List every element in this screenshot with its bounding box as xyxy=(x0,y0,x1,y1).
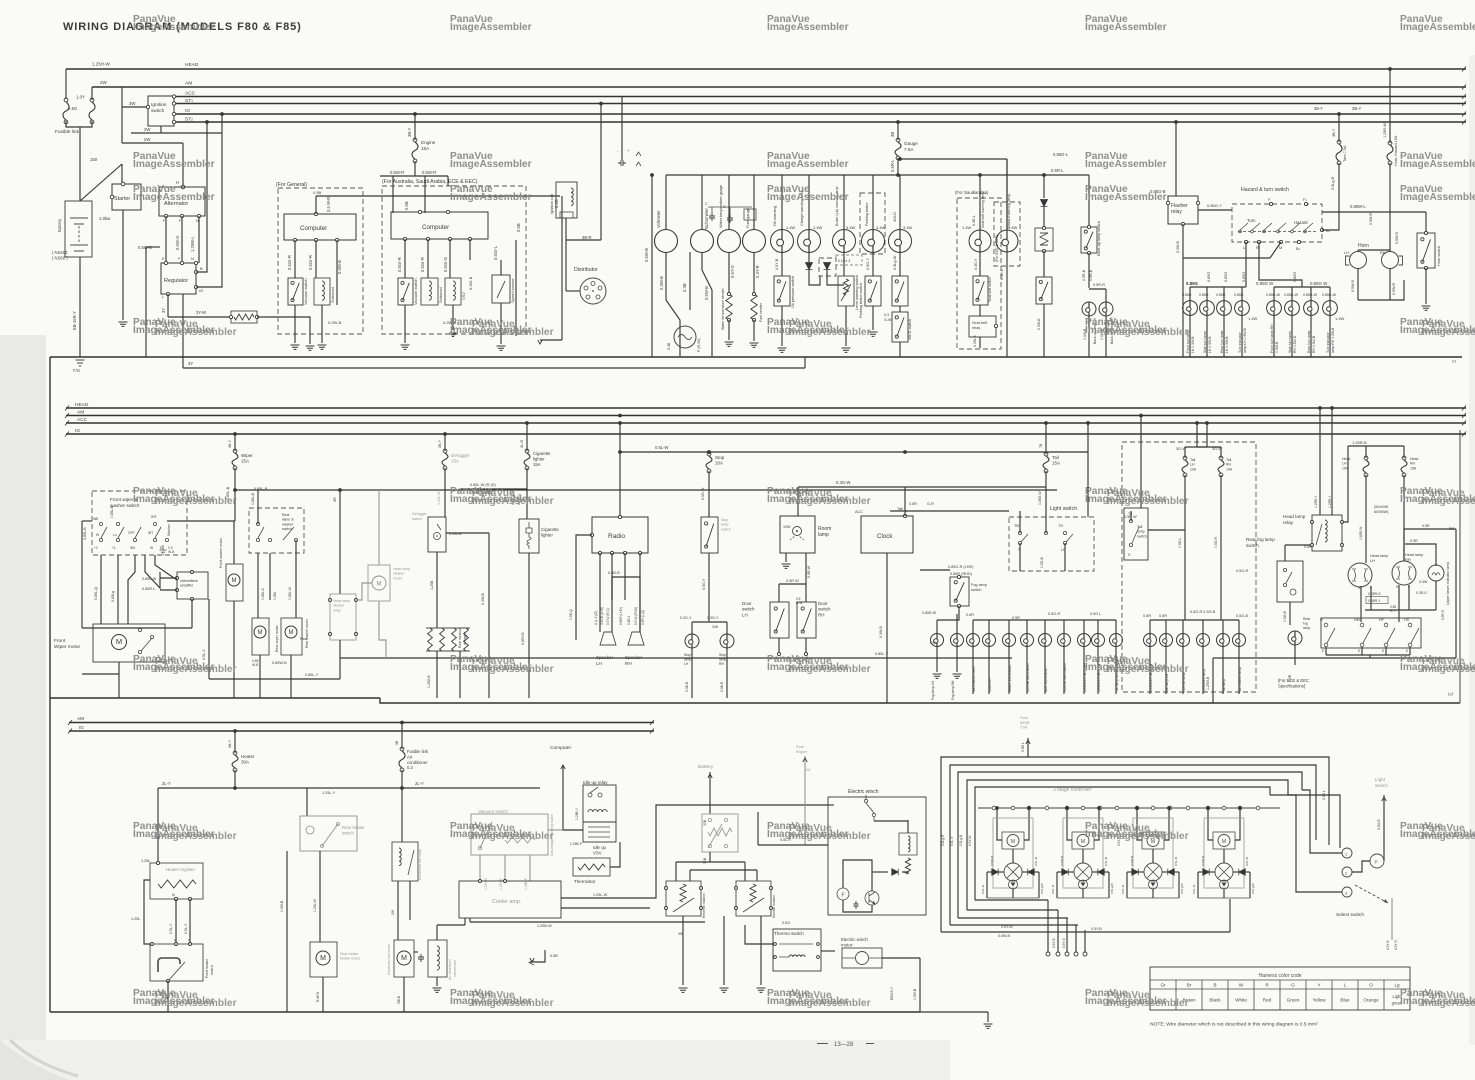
lamp: Heater illumination xyxy=(1003,634,1016,647)
terminal xyxy=(1166,201,1169,204)
wire to horn fuse xyxy=(1389,69,1391,143)
wire antenna xyxy=(576,535,592,640)
wire HEAD to fusible link xyxy=(65,69,67,99)
svg-text:Turn indicator: Turn indicator xyxy=(1238,332,1242,353)
svg-text:LH: LH xyxy=(1344,251,1349,255)
svg-text:3Y: 3Y xyxy=(161,308,166,313)
svg-text:0.5Gr-R: 0.5Gr-R xyxy=(308,255,313,270)
switch: stop lamp xyxy=(701,517,718,553)
unit frame xyxy=(1204,818,1244,888)
wire xyxy=(1229,899,1231,932)
svg-text:Horn switch: Horn switch xyxy=(1437,246,1441,266)
wire xyxy=(1067,832,1072,840)
wire xyxy=(778,638,780,652)
wire xyxy=(160,589,177,591)
svg-text:0.3G-Y: 0.3G-Y xyxy=(974,258,978,270)
svg-text:0.5Y-G: 0.5Y-G xyxy=(730,265,735,278)
fuse: Stop 10A xyxy=(706,452,712,473)
svg-text:Tail: Tail xyxy=(1137,525,1142,529)
wire xyxy=(624,553,626,600)
svg-text:0.5R-L: 0.5R-L xyxy=(1051,168,1064,173)
svg-text:Upper beam indicator lamp: Upper beam indicator lamp xyxy=(1446,562,1450,605)
svg-text:compressor: compressor xyxy=(453,959,457,977)
wire xyxy=(808,252,810,262)
junction xyxy=(978,173,982,177)
lamp: Consult illumination xyxy=(1021,634,1034,647)
resistor element xyxy=(234,314,254,320)
svg-text:2L-Y: 2L-Y xyxy=(415,781,424,786)
wire xyxy=(1289,602,1291,625)
terminal xyxy=(146,105,149,108)
lamp: Front turn lamp RH 0.3W-B xyxy=(1267,301,1282,316)
watermark xyxy=(767,184,849,203)
terminal xyxy=(1074,952,1078,956)
svg-text:0.5Y-B: 0.5Y-B xyxy=(775,258,779,270)
svg-text:0.85G-L: 0.85G-L xyxy=(1053,152,1069,157)
wire xyxy=(1328,800,1330,845)
wire xyxy=(1189,287,1191,301)
diode circle xyxy=(1009,880,1018,889)
label Light switch xyxy=(1375,777,1388,788)
lamp: brake warning xyxy=(833,230,856,253)
normal rotation coil xyxy=(750,884,756,902)
svg-text:0.3: 0.3 xyxy=(884,313,889,317)
junction xyxy=(1205,421,1209,425)
wire xyxy=(1105,289,1107,302)
svg-text:0.85R-G: 0.85R-G xyxy=(1368,592,1381,596)
wire IG to heater fuse xyxy=(234,731,236,753)
terminal xyxy=(727,318,730,321)
svg-text:C: C xyxy=(705,202,708,206)
wire xyxy=(1165,647,1167,695)
wire xyxy=(1044,620,1046,633)
wire xyxy=(1068,871,1074,873)
label Head lamp LH xyxy=(1370,554,1388,563)
wire xyxy=(459,651,461,698)
svg-text:1.4W: 1.4W xyxy=(1248,316,1258,321)
switch: parking brake xyxy=(865,276,881,306)
label Defogger switch xyxy=(412,512,428,521)
wire xyxy=(1208,832,1213,840)
wire xyxy=(1165,620,1167,633)
label Cigarette lighter 15A xyxy=(533,451,551,467)
wire xyxy=(1066,808,1068,832)
svg-text:lamp: lamp xyxy=(721,523,729,527)
svg-text:0.5Y-W: 0.5Y-W xyxy=(968,836,972,846)
ignition coil winding xyxy=(571,188,573,206)
ground Fog lamp LH xyxy=(933,674,942,678)
wire xyxy=(145,555,160,588)
svg-text:HS: HS xyxy=(1404,618,1410,622)
wire xyxy=(1302,790,1342,853)
svg-text:3B-Y: 3B-Y xyxy=(1352,106,1362,111)
watermark xyxy=(450,654,554,675)
terminal xyxy=(355,633,358,636)
ground xyxy=(401,345,410,349)
svg-text:Fusible link: Fusible link xyxy=(407,749,429,754)
watermark xyxy=(767,486,871,507)
wire xyxy=(1209,871,1215,873)
svg-text:Front turn lamp RH: Front turn lamp RH xyxy=(1270,324,1274,353)
svg-text:switch: switch xyxy=(210,965,214,975)
junction xyxy=(1318,406,1322,410)
svg-text:Electric winch: Electric winch xyxy=(841,937,868,942)
left page border xyxy=(49,357,51,1012)
svg-text:0.5R: 0.5R xyxy=(1143,614,1151,618)
ground F/G xyxy=(73,360,85,373)
idle up relay xyxy=(583,785,616,822)
wire xyxy=(1241,315,1243,357)
svg-text:fog: fog xyxy=(1303,622,1308,626)
watermark xyxy=(450,486,554,507)
svg-text:Battery: Battery xyxy=(698,764,714,770)
terminal xyxy=(957,604,960,607)
wire xyxy=(785,553,787,562)
svg-text:Head lamp: Head lamp xyxy=(1370,554,1388,558)
terminal xyxy=(180,214,183,217)
svg-text:1.25G-B: 1.25G-B xyxy=(427,675,431,688)
svg-text:0.85R (LHD): 0.85R (LHD) xyxy=(619,607,623,625)
solenoid 2 xyxy=(421,278,438,305)
wire xyxy=(1361,647,1363,655)
bus end tick xyxy=(1462,67,1466,72)
svg-text:0.3: 0.3 xyxy=(407,765,413,770)
svg-text:60/55W): 60/55W) xyxy=(1374,510,1389,514)
svg-text:switch: switch xyxy=(1137,534,1147,538)
svg-text:3.4W: 3.4W xyxy=(876,225,886,230)
svg-text:ImageAssembler: ImageAssembler xyxy=(1400,22,1475,33)
svg-text:15A: 15A xyxy=(451,459,459,464)
wire xyxy=(1197,446,1207,448)
svg-text:0.85G: 0.85G xyxy=(1186,281,1199,286)
lamp: charge warning xyxy=(798,230,821,253)
terminal xyxy=(957,575,960,578)
wire xyxy=(397,881,399,940)
svg-text:0.5L-W: 0.5L-W xyxy=(655,445,669,450)
svg-text:lamp: lamp xyxy=(684,658,691,662)
svg-text:ImageAssembler: ImageAssembler xyxy=(450,192,532,203)
svg-text:TB: TB xyxy=(1014,524,1019,528)
wire xyxy=(1233,871,1239,873)
svg-text:LH: LH xyxy=(684,662,689,666)
battery relay xyxy=(702,814,738,852)
svg-text:Condenser fan motor: Condenser fan motor xyxy=(387,943,391,975)
junction xyxy=(338,488,342,492)
watermark xyxy=(450,988,554,1009)
winch relay switch xyxy=(864,795,875,821)
watermark xyxy=(133,184,215,203)
capacitor C xyxy=(709,213,715,221)
ground xyxy=(318,345,327,349)
wire 1.25R-B xyxy=(1342,446,1348,522)
fuse: Defogger 15A xyxy=(442,449,448,470)
wire 2L-Y xyxy=(158,787,540,789)
wire xyxy=(1168,808,1170,832)
svg-text:amplifier: amplifier xyxy=(180,584,194,588)
svg-text:Illumination meter: Illumination meter xyxy=(972,665,976,692)
svg-text:0.5R L: 0.5R L xyxy=(1021,742,1025,752)
watermark xyxy=(133,821,237,842)
wire xyxy=(208,599,210,679)
wire xyxy=(315,240,317,278)
wire xyxy=(427,239,429,278)
fuse: Heater 30A xyxy=(232,751,238,772)
svg-text:0.85G-Y: 0.85G-Y xyxy=(1207,203,1222,208)
wire xyxy=(1149,620,1151,633)
computer 2 xyxy=(391,212,488,239)
wire xyxy=(1213,657,1456,659)
head lamp relay contact xyxy=(1316,524,1322,545)
idle up relay coil xyxy=(588,810,607,812)
wire xyxy=(967,909,1058,911)
wire xyxy=(708,553,710,622)
svg-text:0.85L-C: 0.85L-C xyxy=(261,587,265,600)
svg-text:switch: switch xyxy=(721,527,731,531)
watermark xyxy=(1085,184,1167,203)
terminal xyxy=(156,861,159,864)
junction xyxy=(205,120,209,124)
wire to alternator H xyxy=(182,143,184,187)
terminal xyxy=(817,943,820,946)
svg-text:Battery: Battery xyxy=(57,218,62,232)
wire xyxy=(919,958,921,1012)
wire M diagonal xyxy=(1270,242,1281,258)
svg-text:0.5R-W: 0.5R-W xyxy=(807,565,811,578)
svg-text:0.5R: 0.5R xyxy=(1288,674,1292,682)
bus HEAD xyxy=(66,407,1466,409)
dashed box rear wiper and washer switch xyxy=(249,508,304,553)
winch relay coil box xyxy=(899,833,917,855)
terminal xyxy=(172,95,175,98)
wire L drop xyxy=(1245,242,1247,287)
wire xyxy=(998,871,1004,873)
wire xyxy=(804,756,806,845)
svg-text:lamp: lamp xyxy=(818,532,829,538)
motor: head lamp cleaner xyxy=(372,576,386,590)
svg-text:Y: Y xyxy=(1317,983,1320,988)
wire xyxy=(403,977,405,1012)
wire xyxy=(1365,475,1367,563)
svg-text:ImageAssembler: ImageAssembler xyxy=(1085,192,1167,203)
ground xyxy=(306,346,315,350)
svg-text:ImageAssembler: ImageAssembler xyxy=(1422,496,1475,507)
svg-text:Fog lamp LH: Fog lamp LH xyxy=(931,681,935,700)
dashed box parking brake xyxy=(860,193,885,254)
svg-text:gauge: gauge xyxy=(1020,721,1030,725)
svg-text:Head lamp: Head lamp xyxy=(393,567,410,571)
fuse: fusible link 0.5G xyxy=(63,98,69,124)
svg-text:conditioner: conditioner xyxy=(407,760,428,765)
horn RH xyxy=(1382,252,1403,269)
wire xyxy=(257,490,259,524)
wire xyxy=(1026,647,1028,695)
wire xyxy=(1008,620,1010,633)
terminal xyxy=(1297,240,1300,243)
fuse: Head RH 15A xyxy=(1401,456,1407,477)
wire xyxy=(479,855,481,881)
wire xyxy=(1097,647,1099,695)
watermark xyxy=(1400,486,1475,507)
svg-text:ImageAssembler: ImageAssembler xyxy=(1085,159,1167,170)
wire xyxy=(1389,268,1391,300)
terminal xyxy=(1424,231,1427,234)
wire xyxy=(295,553,297,618)
svg-text:LH: LH xyxy=(1342,462,1347,466)
svg-text:ImageAssembler: ImageAssembler xyxy=(1107,664,1189,675)
wire 3Y-W xyxy=(168,316,231,318)
wire xyxy=(528,553,530,698)
svg-text:ImageAssembler: ImageAssembler xyxy=(472,831,554,842)
wire xyxy=(1197,872,1199,898)
wire xyxy=(1184,475,1186,620)
dashed box (For ECE & EEC) xyxy=(994,202,1020,266)
svg-text:0.3W-B: 0.3W-B xyxy=(879,625,883,638)
svg-text:0.3R-L: 0.3R-L xyxy=(972,215,976,226)
defogger switch symbol xyxy=(434,524,442,540)
svg-text:Fog lamp: Fog lamp xyxy=(971,583,987,587)
lamp: Side turn lamp RH 0.3W-D xyxy=(1285,301,1300,316)
svg-text:Tail: Tail xyxy=(897,506,903,511)
svg-text:3.4W: 3.4W xyxy=(1419,580,1428,584)
svg-text:Engine: Engine xyxy=(796,750,807,754)
terminal xyxy=(1056,952,1060,956)
label Fog lamp switch xyxy=(971,583,987,592)
wire 0.5W-B long xyxy=(651,175,653,357)
svg-text:0.5Y-W: 0.5Y-W xyxy=(1001,925,1013,929)
svg-text:0.3G-Y: 0.3G-Y xyxy=(707,616,719,620)
svg-text:0.3W-B: 0.3W-B xyxy=(973,335,977,347)
svg-text:2W-B: 2W-B xyxy=(397,995,401,1004)
svg-text:0.85G: 0.85G xyxy=(1199,293,1209,297)
svg-text:R-Y: R-Y xyxy=(1390,609,1396,613)
wire xyxy=(843,900,872,912)
svg-text:0.5R: 0.5R xyxy=(1012,616,1020,620)
bus end tick xyxy=(1462,94,1466,99)
svg-text:lamp RH 0.3W-B: lamp RH 0.3W-B xyxy=(1331,327,1335,353)
wire xyxy=(1184,447,1186,458)
bus end tick xyxy=(65,413,69,418)
wire tachometer feed xyxy=(701,175,703,229)
wire AM to AC fusible link xyxy=(401,723,403,750)
svg-text:Radio: Radio xyxy=(608,533,625,540)
wire voltmeter down xyxy=(665,252,667,300)
watermark xyxy=(767,14,849,33)
VSV element xyxy=(588,827,610,837)
svg-text:0.5G-L: 0.5G-L xyxy=(1178,538,1182,548)
lamp: parking brake xyxy=(862,230,885,253)
svg-text:B: B xyxy=(1213,983,1216,988)
junction xyxy=(1337,112,1341,116)
svg-text:0.5Gr-L: 0.5Gr-L xyxy=(493,245,498,260)
wire xyxy=(682,916,684,985)
wire xyxy=(937,606,959,620)
svg-text:cleaner: cleaner xyxy=(333,604,345,608)
svg-text:ImageAssembler: ImageAssembler xyxy=(767,159,849,170)
wire xyxy=(1220,475,1222,620)
clock xyxy=(861,516,913,553)
terminal xyxy=(418,210,421,213)
svg-text:0.85G: 0.85G xyxy=(1234,293,1244,297)
diode charge xyxy=(806,263,813,270)
wire xyxy=(1220,447,1222,458)
watermark xyxy=(133,988,237,1009)
condenser relay coil xyxy=(399,848,401,866)
wire xyxy=(986,872,988,898)
wire xyxy=(1082,849,1084,863)
svg-text:Rear heater: Rear heater xyxy=(342,825,365,830)
head lamp relay coil xyxy=(1325,520,1327,542)
wire xyxy=(566,239,601,241)
svg-text:0.85G-R (LHD): 0.85G-R (LHD) xyxy=(948,565,974,569)
svg-text:ImageAssembler: ImageAssembler xyxy=(789,998,871,1009)
bus end tick xyxy=(65,421,69,426)
svg-text:0.3R-G: 0.3R-G xyxy=(1416,591,1427,595)
terminal xyxy=(448,237,451,240)
wire xyxy=(1083,620,1085,633)
turn switch contacts xyxy=(1238,223,1316,233)
wire horn switch feed xyxy=(1425,212,1427,233)
svg-text:0.5G-R: 0.5G-R xyxy=(1214,537,1218,548)
wire xyxy=(723,916,725,985)
svg-text:LH: LH xyxy=(742,612,748,617)
wire regulator L xyxy=(167,294,169,317)
wire xyxy=(336,240,338,305)
bus end tick xyxy=(1462,112,1466,117)
fuse: Wiper 15A xyxy=(232,449,238,470)
svg-text:Head lamp: Head lamp xyxy=(333,599,350,603)
heater register element xyxy=(158,880,196,888)
wire xyxy=(728,320,730,340)
terminal xyxy=(1257,240,1260,243)
wire xyxy=(690,869,757,871)
terminal xyxy=(172,120,175,123)
terminal xyxy=(189,943,192,946)
wire back-up feed xyxy=(1088,175,1090,227)
svg-text:motor: motor xyxy=(841,943,853,948)
label Intermittent amplifier xyxy=(180,579,198,588)
winch relay coil xyxy=(908,836,910,852)
label Gauge 7.5A xyxy=(904,141,918,152)
diode bridge xyxy=(1004,863,1022,881)
svg-text:Br: Br xyxy=(1187,983,1192,988)
svg-text:3W: 3W xyxy=(129,101,136,106)
fuse: Gauge 7.5A xyxy=(895,138,901,160)
svg-text:Specifications]: Specifications] xyxy=(1278,683,1305,688)
svg-text:LH: LH xyxy=(1190,463,1195,467)
wire xyxy=(745,925,773,944)
junction xyxy=(1065,806,1069,810)
terminal xyxy=(329,633,332,636)
switch: door RH xyxy=(797,602,816,638)
ignition coil xyxy=(556,182,577,218)
svg-text:0.5W-R: 0.5W-R xyxy=(422,170,436,175)
svg-text:2W: 2W xyxy=(100,80,108,85)
terminal xyxy=(172,102,175,105)
watermark xyxy=(1085,14,1167,33)
svg-text:0.5L-B: 0.5L-B xyxy=(1174,857,1178,866)
junction xyxy=(1174,120,1178,124)
lamp: back-up LH xyxy=(1082,302,1096,316)
bus AM band3 xyxy=(69,722,654,724)
svg-text:0.5B: 0.5B xyxy=(404,201,409,210)
svg-text:M: M xyxy=(232,578,237,584)
washer ground xyxy=(160,545,176,554)
wire xyxy=(645,805,828,898)
svg-text:switch: switch xyxy=(742,607,755,612)
wire xyxy=(691,648,693,698)
svg-text:Defogger: Defogger xyxy=(451,453,470,458)
bus end tick xyxy=(65,432,69,437)
